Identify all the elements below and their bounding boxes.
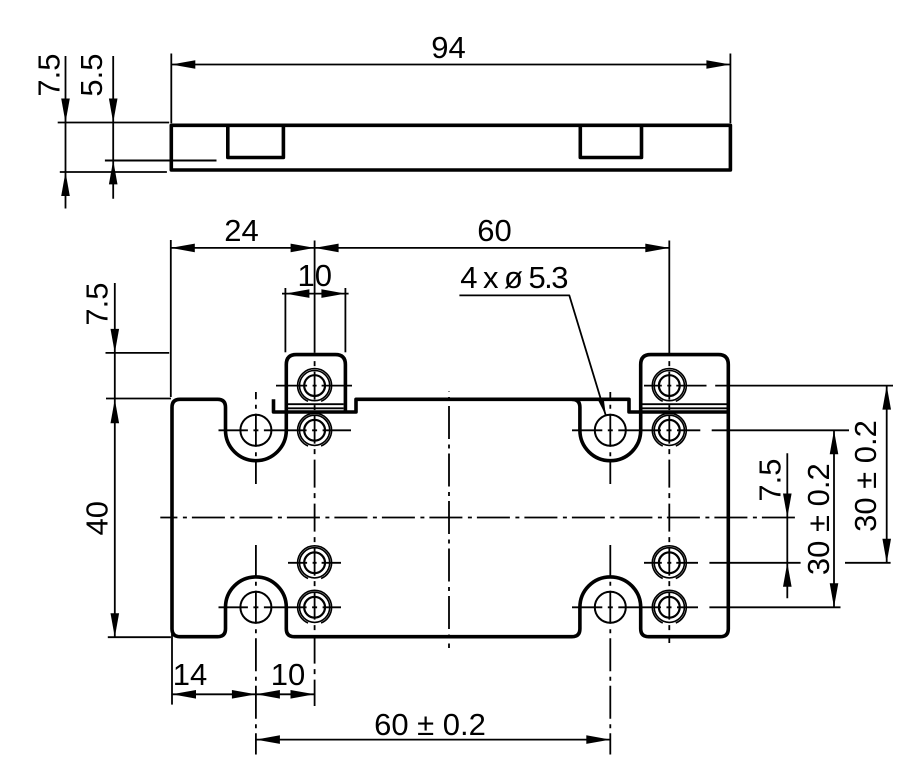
centerline col 255.9 bottom [255, 545, 257, 755]
centerline row 562.8 left [288, 562, 341, 564]
plan view: left step edge [274, 399, 727, 412]
dim 10 bottom: arrow left [256, 690, 280, 699]
dim 7.5 right: arrow up [783, 563, 792, 587]
svg-text:10: 10 [271, 657, 305, 692]
ext row 562.8 segment a [709, 562, 800, 564]
dim 60: arrow right [645, 244, 669, 253]
dim 5.5: arrow up [109, 160, 118, 184]
dim 7.5 right: arrow down [783, 494, 792, 518]
side view: plate outline [171, 125, 730, 170]
dim 7.5 side: arrow up [61, 172, 70, 196]
plan view: left U cutout and left tab [218, 355, 346, 461]
centerline col 314.6 ext [314, 241, 316, 353]
dim 30+-0.2 outer: arrow up [882, 386, 891, 410]
svg-text:4 x ø 5.3: 4 x ø 5.3 [460, 260, 567, 295]
dim 10 top: extension line left [284, 288, 286, 352]
dim 60+-0.2: arrow left [256, 735, 280, 744]
dim 24: arrow right [291, 244, 315, 253]
ext row 562.8 segment b [845, 562, 891, 564]
threaded hole #5 [304, 552, 325, 573]
dim 60+-0.2: arrow right [586, 735, 610, 744]
svg-text:60 ± 0.2: 60 ± 0.2 [374, 707, 486, 742]
dim 7.5 side: dimension line [65, 56, 67, 209]
side view: right groove notch [580, 126, 641, 158]
centerline col 610.3 bottom [609, 545, 611, 755]
dim 14/10: dimension line [172, 693, 315, 695]
plain hole 5.3 #1 [240, 415, 271, 446]
side view: top extension line [58, 122, 170, 124]
dim 10 top: extension line right [344, 288, 346, 352]
dim 7.5 plan: arrow down [111, 329, 120, 353]
side view: left groove notch [228, 126, 284, 158]
dim 7.5 side: arrow down [61, 99, 70, 123]
dim 10 top: arrow left [285, 289, 309, 298]
dim 14: arrow right [232, 690, 256, 699]
ext row 430.3 right segment [712, 429, 849, 431]
svg-text:94: 94 [431, 30, 465, 65]
centerline row 607.3 right [572, 606, 698, 608]
dim 30+-0.2 inner: arrow up [830, 430, 839, 454]
centerline row 607.3 left [219, 606, 342, 608]
centerline col 314.6 [314, 352, 316, 706]
dim 5.5: dimension line [112, 56, 114, 199]
centerline col 669.3 [668, 358, 670, 643]
dim 7.5 plan: arrow up [111, 399, 120, 423]
svg-text:7.5: 7.5 [753, 458, 788, 501]
svg-text:10: 10 [298, 258, 332, 293]
centerline row 430.3 right [572, 429, 700, 431]
svg-text:5.5: 5.5 [74, 53, 109, 96]
dim 5.5: arrow down [109, 99, 118, 123]
dim 7.5 plan: dimension line [114, 283, 116, 637]
ext top edge left [106, 398, 171, 400]
dim 30+-0.2 outer: arrow down [882, 539, 891, 563]
dim 94: arrow left [171, 60, 195, 69]
threaded hole #2 [659, 375, 680, 396]
dim 24: arrow left [171, 244, 195, 253]
svg-text:14: 14 [173, 657, 207, 692]
centerline col 669.3 ext [668, 241, 670, 354]
plan view: step thin lines under left tab [288, 403, 344, 405]
dim 94: arrow right [706, 60, 730, 69]
dim 94: extension line left [170, 54, 172, 124]
svg-text:7.5: 7.5 [80, 282, 115, 325]
svg-text:30 ± 0.2: 30 ± 0.2 [801, 463, 836, 575]
ext bottom edge left [108, 636, 171, 638]
svg-text:40: 40 [80, 501, 115, 535]
dim 7.5 right: dimension line [786, 453, 788, 598]
leader 4x5.3: underline and leader [459, 295, 605, 415]
plan view: step thin lines right section [643, 403, 727, 405]
leader 4x5.3: arrowhead [598, 398, 606, 415]
plain hole 5.3 #4 [595, 592, 626, 623]
threaded hole #4 [659, 420, 680, 441]
centerline row 385.6 left [276, 385, 352, 387]
threaded hole #6 [659, 552, 680, 573]
svg-text:7.5: 7.5 [32, 53, 67, 96]
ext row 385.6 right segment [715, 385, 893, 387]
plain hole 5.3 #2 [595, 415, 626, 446]
centerline main horizontal [160, 517, 796, 519]
centerline main vertical [448, 391, 450, 648]
centerline col 610.3 top [609, 392, 611, 484]
side view: bottom extension line [60, 171, 167, 173]
centerline col 255.9 top [255, 392, 257, 484]
dim 94: dimension line [171, 64, 730, 66]
dim 30+-0.2 outer: dimension line [886, 386, 888, 563]
dim 60+-0.2: dimension line [256, 739, 610, 741]
centerline row 385.6 right [644, 385, 707, 387]
dim 30+-0.2 inner: dimension line [833, 430, 835, 607]
centerline row 562.8 right [644, 562, 698, 564]
dim 60: arrow left [315, 244, 339, 253]
dim 24/60: dimension line [171, 247, 670, 249]
threaded hole #1 [304, 375, 325, 396]
centerline row 430.3 left [219, 429, 352, 431]
threaded hole #8 [659, 597, 680, 618]
plan view: main plate outline [172, 355, 728, 637]
plain hole 5.3 #3 [240, 592, 271, 623]
ext row 607.3 right segment [709, 606, 840, 608]
dim 10 top: arrow right [321, 289, 345, 298]
dim 24: extension line left [170, 240, 172, 397]
dim 14: arrow left [172, 690, 196, 699]
dim 40: arrow down [111, 613, 120, 637]
dim 14: extension line left [171, 634, 173, 705]
ext tab top left [106, 352, 170, 354]
side view: groove depth line [105, 160, 217, 162]
threaded hole #3 [304, 420, 325, 441]
dim 10 bottom: arrow right [291, 690, 315, 699]
dim 94: extension line right [729, 54, 731, 124]
threaded hole #7 [304, 597, 325, 618]
svg-text:30 ± 0.2: 30 ± 0.2 [848, 420, 883, 532]
svg-text:24: 24 [224, 213, 258, 248]
dim 30+-0.2 inner: arrow down [830, 583, 839, 607]
dim 10 top: dimension line [282, 293, 349, 295]
svg-text:60: 60 [477, 213, 511, 248]
